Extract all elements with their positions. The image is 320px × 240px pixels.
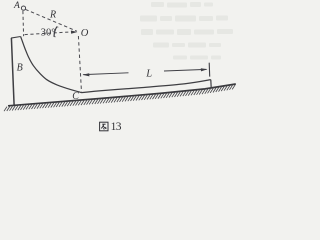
dashed horizontal line to O bbox=[25, 32, 72, 35]
angle arc at O bbox=[54, 27, 57, 37]
dashed line A to O (radius R) bbox=[25, 9, 77, 31]
svg-text:A: A bbox=[13, 1, 20, 11]
curved ramp surface from top to C bbox=[21, 37, 82, 93]
arc serif top bbox=[57, 26, 58, 29]
svg-text:13: 13 bbox=[111, 121, 122, 133]
track right end edge bbox=[210, 80, 212, 88]
top edge of ramp bbox=[11, 37, 21, 39]
arc serif bottom bbox=[54, 36, 56, 38]
right arrowhead bbox=[201, 68, 208, 71]
ball (small circle) at A bbox=[21, 6, 25, 10]
caption: hanzi TU (custom drawn) bbox=[100, 122, 108, 131]
track top surface (board) bbox=[82, 80, 211, 93]
svg-text:O: O bbox=[81, 28, 89, 39]
dimension line L left segment with left arrowhead bbox=[83, 73, 128, 75]
svg-text:30°: 30° bbox=[41, 27, 56, 38]
wall (left vertical edge of ramp) bbox=[11, 38, 14, 105]
dimension end tick (right) bbox=[208, 63, 211, 77]
background paper bbox=[0, 0, 245, 135]
ground line bbox=[8, 84, 236, 106]
dashed vertical line below A bbox=[22, 11, 25, 36]
ground hatching bbox=[4, 85, 235, 111]
faint bleed-through smudge row 1 bbox=[140, 2, 233, 60]
svg-text:R: R bbox=[49, 9, 56, 20]
dimension line L right segment bbox=[164, 69, 207, 71]
svg-text:B: B bbox=[17, 63, 23, 74]
dashed vertical line below O bbox=[78, 36, 81, 92]
arrowhead at O bbox=[71, 31, 78, 34]
left arrowhead bbox=[82, 73, 89, 76]
svg-text:L: L bbox=[145, 69, 152, 80]
